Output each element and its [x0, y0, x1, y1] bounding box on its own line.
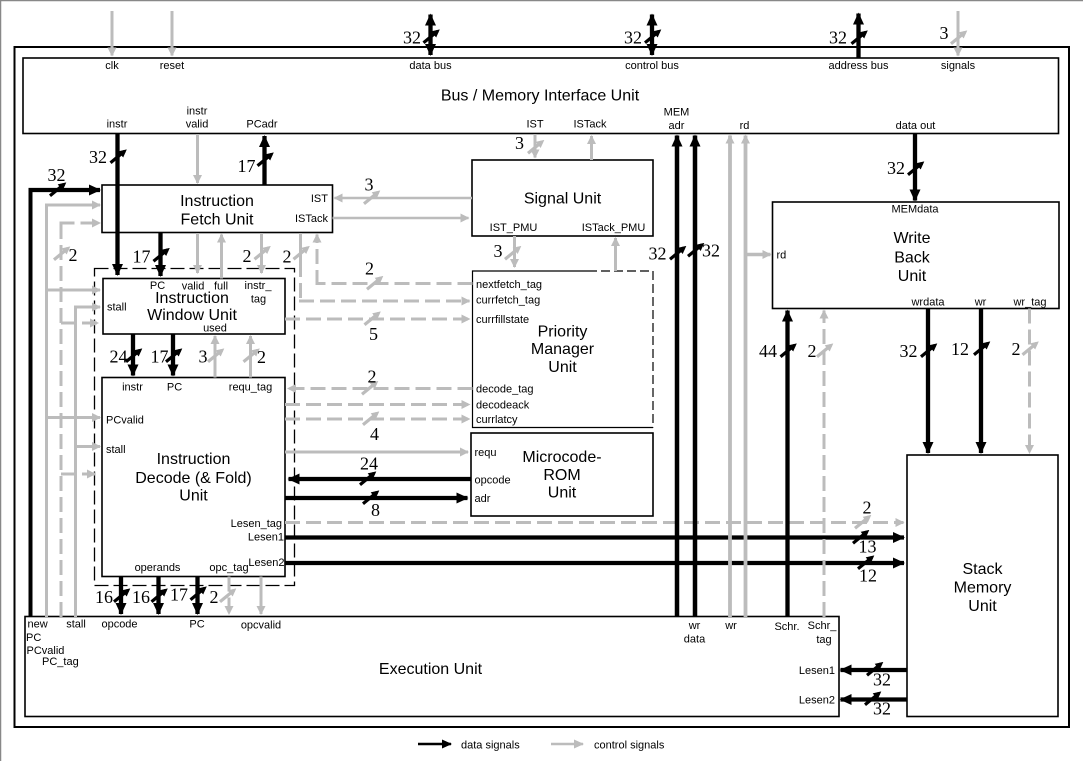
wire Lesen2 12 from IDU to SMU: [285, 561, 904, 565]
svg-text:Lesen_tag: Lesen_tag: [231, 518, 282, 530]
wire Lesen2 32 from SMU to EU: [841, 697, 908, 701]
svg-text:wr: wr: [974, 297, 987, 309]
wire Schr_tag 2 dashed from EU to WBU: [823, 311, 826, 618]
svg-text:12: 12: [951, 339, 969, 359]
svg-text:new: new: [28, 619, 48, 631]
svg-text:Instruction: Instruction: [157, 451, 231, 468]
wire signals 3: [957, 11, 960, 56]
svg-text:4: 4: [370, 424, 379, 444]
wire new PC 32 from EU to IFU: [29, 190, 33, 617]
svg-text:12: 12: [859, 566, 877, 586]
wire decode_tag 2 dashed from PMU to IDU: [288, 387, 473, 390]
svg-text:tag: tag: [251, 294, 266, 306]
svg-text:32: 32: [89, 147, 107, 167]
svg-text:Unit: Unit: [548, 359, 577, 376]
unit box U-SMU Stack Memory Unit: [907, 455, 1058, 717]
wire Schr 44 from EU to WBU: [785, 311, 789, 618]
svg-text:32: 32: [702, 241, 720, 261]
svg-text:2: 2: [210, 587, 219, 607]
svg-text:requ_tag: requ_tag: [229, 382, 272, 394]
svg-text:data signals: data signals: [461, 740, 520, 752]
svg-text:adr: adr: [475, 493, 491, 505]
svg-text:PC: PC: [26, 632, 41, 644]
svg-text:Decode (& Fold): Decode (& Fold): [135, 470, 252, 487]
wire instr 32 from bus to IWU: [115, 134, 119, 275]
svg-text:data bus: data bus: [409, 60, 452, 72]
unit box U-IWU Instruction Window Unit: [103, 279, 285, 335]
svg-text:17: 17: [151, 347, 169, 367]
svg-text:used: used: [203, 323, 227, 335]
svg-text:32: 32: [873, 670, 891, 690]
svg-text:2: 2: [368, 367, 377, 387]
wire Lesen1 13 from IDU to SMU: [285, 535, 904, 539]
svg-text:2: 2: [365, 259, 374, 279]
svg-text:Schr_: Schr_: [808, 620, 838, 632]
svg-text:stall: stall: [66, 619, 86, 631]
svg-text:3: 3: [365, 175, 374, 195]
svg-text:Instruction: Instruction: [155, 290, 229, 307]
wire rd control from EU to bus: [728, 136, 732, 618]
svg-text:Lesen2: Lesen2: [248, 557, 284, 569]
wire instr valid from bus to IFU: [196, 134, 199, 183]
svg-text:16: 16: [95, 587, 113, 607]
wire opcode 24 from MCR to IDU: [289, 477, 472, 481]
svg-text:instr: instr: [187, 106, 208, 118]
wire ISTack_PMU from PMU to Signal Unit: [614, 238, 617, 271]
svg-text:PCvalid: PCvalid: [106, 415, 144, 427]
wire used 3 from IDU to IWU: [214, 336, 217, 378]
wire currlatcy 4 dashed from IDU to PMU: [285, 418, 470, 421]
svg-text:data: data: [684, 634, 706, 646]
svg-text:32: 32: [624, 28, 642, 48]
wire operands 16 from IDU to EU: [156, 577, 160, 615]
svg-text:wrdata: wrdata: [910, 297, 945, 309]
svg-text:3: 3: [494, 241, 503, 261]
wire address bus 32: [856, 14, 860, 59]
svg-text:decodeack: decodeack: [476, 400, 530, 412]
svg-text:operands: operands: [135, 562, 181, 574]
svg-text:Write: Write: [893, 230, 930, 247]
svg-text:opcvalid: opcvalid: [241, 620, 281, 632]
svg-text:Lesen1: Lesen1: [799, 665, 835, 677]
wire reset input: [171, 11, 174, 56]
svg-text:valid: valid: [182, 281, 205, 293]
wire wr 32 from EU to bus: [693, 136, 698, 618]
svg-text:Signal Unit: Signal Unit: [524, 191, 602, 208]
unit box U-IDU Instruction Decode (& Fold) Unit: [102, 378, 285, 577]
wire PC 17 from IDU to EU: [195, 577, 199, 615]
svg-text:8: 8: [371, 500, 380, 520]
svg-text:32: 32: [403, 28, 421, 48]
svg-text:Unit: Unit: [898, 268, 927, 285]
svg-text:3: 3: [199, 347, 208, 367]
wire opcvalid from IDU to EU: [260, 577, 263, 615]
svg-text:requ: requ: [475, 447, 497, 459]
wire Lesen_tag 2 dashed from IDU to SMU: [285, 521, 904, 524]
svg-text:wr: wr: [688, 620, 701, 632]
svg-text:IST_PMU: IST_PMU: [490, 222, 538, 234]
svg-text:17: 17: [170, 585, 188, 605]
svg-text:16: 16: [132, 587, 150, 607]
wire requ_tag 2 from IDU to IWU: [249, 336, 252, 378]
wire PC 17 from IFU to IWU: [158, 233, 162, 276]
wire currfetch_tag 2 from IFU to PMU: [299, 233, 302, 262]
svg-text:3: 3: [515, 133, 524, 153]
svg-text:wr: wr: [724, 620, 737, 632]
svg-text:PC: PC: [150, 280, 165, 292]
svg-text:wr_tag: wr_tag: [1012, 297, 1046, 309]
svg-text:Lesen2: Lesen2: [799, 695, 835, 707]
svg-text:control signals: control signals: [594, 740, 665, 752]
svg-text:Memory: Memory: [954, 580, 1012, 597]
wire opcode 16 from IDU to EU: [119, 577, 123, 615]
svg-text:2: 2: [283, 247, 292, 267]
svg-text:Priority: Priority: [538, 324, 588, 341]
svg-text:17: 17: [133, 247, 151, 267]
svg-text:instr: instr: [122, 382, 143, 394]
svg-text:control bus: control bus: [625, 60, 679, 72]
wire ISTack from Signal Unit to bus: [590, 136, 593, 160]
svg-text:PC: PC: [167, 382, 182, 394]
unit box U-EU Execution Unit: [25, 617, 839, 717]
svg-text:2: 2: [863, 498, 872, 518]
svg-text:opcode: opcode: [475, 475, 511, 487]
svg-text:nextfetch_tag: nextfetch_tag: [476, 279, 542, 291]
unit box U-BMIU Bus / Memory Interface Unit: [23, 58, 1059, 134]
svg-text:2: 2: [1012, 339, 1021, 359]
svg-text:2: 2: [257, 347, 266, 367]
svg-text:instr: instr: [107, 119, 128, 131]
svg-text:32: 32: [48, 165, 66, 185]
dashed group box around window and decode units: [95, 269, 295, 586]
svg-text:rd: rd: [740, 120, 750, 132]
svg-text:3: 3: [940, 23, 949, 43]
svg-text:32: 32: [649, 244, 667, 264]
svg-text:currfillstate: currfillstate: [476, 314, 529, 326]
svg-text:ISTack_PMU: ISTack_PMU: [582, 222, 646, 234]
wire wr 12 from WBU to SMU: [979, 309, 983, 454]
wire stall from EU to IWU IDU: [74, 307, 77, 617]
wire instr_tag 2 from IFU to IWU: [260, 233, 263, 273]
wire rd control from EU to bus and WBU: [744, 136, 748, 618]
wire currfillstate 5 dashed from IWU to PMU: [285, 318, 470, 321]
svg-text:rd: rd: [777, 250, 787, 262]
svg-text:Schr.: Schr.: [774, 621, 799, 633]
svg-text:ISTack: ISTack: [295, 213, 329, 225]
svg-text:32: 32: [900, 341, 918, 361]
svg-text:24: 24: [110, 347, 128, 367]
unit box U-SU Signal Unit: [472, 160, 653, 236]
svg-text:MEM: MEM: [664, 107, 690, 119]
svg-text:IST: IST: [526, 119, 543, 131]
wire wrdata 32 from WBU to SMU: [926, 309, 930, 454]
svg-text:Fetch Unit: Fetch Unit: [181, 212, 254, 229]
svg-text:ROM: ROM: [543, 467, 580, 484]
svg-text:17: 17: [238, 156, 256, 176]
svg-text:Back: Back: [894, 250, 931, 267]
wire clk input: [111, 11, 114, 56]
wire data out 32 from bus to WBU: [913, 134, 917, 201]
wire valid from IFU to IWU: [196, 233, 199, 273]
wire decodeack dashed from IDU to PMU: [285, 403, 470, 406]
svg-text:currlatcy: currlatcy: [476, 414, 518, 426]
svg-text:signals: signals: [941, 60, 976, 72]
wire PCadr 17 from IFU to bus: [262, 136, 266, 185]
svg-text:currfetch_tag: currfetch_tag: [476, 295, 540, 307]
svg-text:32: 32: [873, 699, 891, 719]
svg-text:MEMdata: MEMdata: [891, 204, 939, 216]
wire PCvalid from EU to IFU IWU IDU: [45, 205, 48, 617]
svg-text:13: 13: [859, 537, 877, 557]
svg-text:2: 2: [808, 341, 817, 361]
legend data signals arrow: [418, 743, 451, 746]
svg-text:44: 44: [759, 341, 777, 361]
svg-text:valid: valid: [186, 119, 209, 131]
svg-text:Execution Unit: Execution Unit: [379, 661, 483, 678]
svg-text:24: 24: [360, 454, 378, 474]
wire adr 8 from IDU to MCR: [285, 496, 468, 500]
unit box U-PMU Priority Manager Unit (dashed): [473, 271, 654, 428]
svg-text:Bus / Memory Interface Unit: Bus / Memory Interface Unit: [441, 88, 640, 105]
svg-text:Window Unit: Window Unit: [147, 307, 237, 324]
svg-text:full: full: [214, 281, 228, 293]
svg-text:Manager: Manager: [531, 341, 595, 358]
svg-text:IST: IST: [311, 193, 328, 205]
wire opc_tag 2 dashed from IDU to EU: [228, 577, 231, 615]
svg-text:2: 2: [243, 246, 252, 266]
wire Lesen1 32 from SMU to EU: [841, 668, 908, 672]
svg-text:Unit: Unit: [968, 598, 997, 615]
svg-text:opc_tag: opc_tag: [209, 562, 248, 574]
unit box U-WBU Write Back Unit: [773, 202, 1060, 309]
svg-text:stall: stall: [107, 302, 127, 314]
svg-text:tag: tag: [816, 634, 831, 646]
svg-text:opcode: opcode: [101, 619, 137, 631]
wire wr_tag 2 dashed from WBU to SMU: [1028, 309, 1031, 454]
wire instr 24 from IWU to IDU: [131, 334, 135, 376]
wire IST_PMU 3 from Signal Unit to PMU: [513, 236, 516, 267]
svg-text:Lesen1: Lesen1: [248, 532, 284, 544]
wire ISTack from IFU to Signal Unit: [333, 217, 469, 219]
wire data bus 32: [428, 15, 432, 56]
svg-text:PCadr: PCadr: [246, 119, 278, 131]
svg-text:2: 2: [69, 245, 78, 265]
svg-text:Stack: Stack: [962, 561, 1003, 578]
unit box U-IFU Instruction Fetch Unit: [102, 185, 333, 233]
svg-text:reset: reset: [160, 60, 184, 72]
wire MEM adr 32 from EU to bus: [675, 136, 680, 618]
svg-text:Microcode-: Microcode-: [522, 449, 601, 466]
svg-text:PC: PC: [189, 619, 204, 631]
svg-text:PC_tag: PC_tag: [42, 656, 79, 668]
svg-text:data out: data out: [896, 120, 936, 132]
legend control signals arrow: [551, 743, 583, 746]
wire IST 3 from Signal Unit to IFU: [335, 197, 473, 199]
svg-text:decode_tag: decode_tag: [476, 384, 534, 396]
svg-text:5: 5: [369, 324, 378, 344]
svg-text:adr: adr: [669, 120, 685, 132]
svg-text:32: 32: [887, 158, 905, 178]
wire IST 3 from bus to Signal Unit: [534, 134, 537, 158]
wire control bus 32: [650, 15, 654, 56]
wire PC 17 from IWU to IDU: [171, 334, 175, 376]
svg-text:ISTack: ISTack: [573, 119, 607, 131]
svg-text:instr_: instr_: [245, 280, 273, 292]
svg-text:Unit: Unit: [548, 485, 577, 502]
wire nextfetch_tag 2 dashed from PMU to IFU: [317, 282, 473, 285]
svg-text:stall: stall: [106, 444, 126, 456]
wire PC_tag 2 dashed from EU to IFU IWU IDU: [60, 223, 63, 617]
svg-text:address bus: address bus: [829, 60, 889, 72]
unit box U-MCR Microcode-ROM Unit: [471, 433, 653, 516]
svg-text:32: 32: [829, 28, 847, 48]
wire full from IWU to IFU: [220, 235, 223, 279]
svg-text:Unit: Unit: [179, 488, 208, 505]
svg-text:clk: clk: [105, 60, 119, 72]
wire requ from IDU to MCR: [285, 451, 468, 454]
svg-text:Instruction: Instruction: [180, 193, 254, 210]
